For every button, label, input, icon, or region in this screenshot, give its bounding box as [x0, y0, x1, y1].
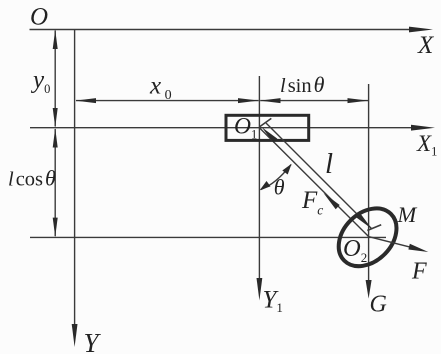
svg-text:O: O	[30, 4, 48, 31]
theta arc left arrowhead	[260, 181, 271, 190]
cart rectangle	[226, 115, 309, 140]
l dimension arrowhead at O2 end	[356, 213, 372, 229]
svg-text:G: G	[370, 292, 387, 318]
l cos bottom arrowhead	[53, 218, 58, 237]
G force arrowhead	[366, 280, 372, 299]
x0 left arrowhead	[75, 98, 96, 103]
vertical construction line through O2	[368, 84, 370, 283]
horizontal construction line through O2	[30, 236, 386, 238]
svg-text:lcosθ: lcosθ	[8, 166, 56, 191]
mass ellipse M	[327, 197, 408, 278]
l sin left arrowhead	[260, 98, 281, 103]
Y axis arrowhead	[72, 324, 78, 347]
F force vector	[369, 237, 412, 248]
l cos(theta) dimension line	[54, 129, 56, 236]
y0 top arrowhead	[53, 30, 58, 49]
x0 right arrowhead	[238, 98, 259, 103]
svg-text:l: l	[325, 148, 333, 180]
l dimension arrowhead at O1 end	[262, 127, 278, 142]
svg-text:M: M	[397, 202, 418, 227]
slash tick at O1	[259, 118, 271, 127]
slash tick at O2	[367, 225, 381, 231]
x0 dimension line	[76, 100, 259, 102]
X axis	[30, 29, 413, 31]
svg-text:F: F	[411, 259, 427, 285]
F force arrowhead	[408, 244, 428, 252]
rod lower line through O1 and O2	[259, 128, 368, 237]
Y1 axis (vertical through O1)	[258, 76, 260, 280]
Fc force arrowhead	[324, 193, 340, 209]
l cos top arrowhead	[53, 128, 58, 147]
X axis arrowhead	[409, 27, 433, 33]
X1 axis	[30, 127, 414, 129]
theta arc right arrowhead	[282, 164, 291, 175]
svg-text:X: X	[417, 32, 435, 59]
svg-text:θ: θ	[274, 174, 285, 199]
y0 bottom arrowhead	[53, 108, 58, 127]
rod upper edge line	[266, 123, 372, 229]
Y axis	[74, 29, 76, 327]
X1 axis arrowhead	[411, 125, 435, 131]
l sin(theta) dimension line	[260, 100, 368, 102]
Y1 arrowhead	[257, 278, 263, 301]
y0 dimension line	[54, 31, 56, 127]
l sin right arrowhead	[348, 98, 369, 103]
theta angle arc	[261, 165, 291, 190]
